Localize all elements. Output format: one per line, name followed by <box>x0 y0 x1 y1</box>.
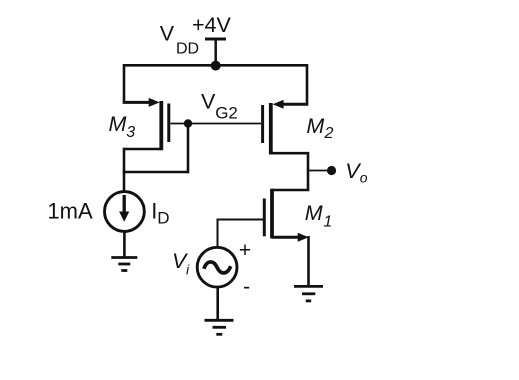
svg-text:1mA: 1mA <box>47 199 93 224</box>
source Vi circle <box>197 247 237 287</box>
wire M1 source to ground <box>307 236 310 286</box>
supply bar +4V <box>205 38 226 41</box>
ground under Vi <box>205 320 234 334</box>
ground under M1 <box>294 286 323 301</box>
svg-text:G2: G2 <box>215 104 238 123</box>
transistor M2 source lead with arrow <box>273 100 309 109</box>
transistor M2 channel bar <box>269 103 273 155</box>
source Vi sine wave <box>204 262 231 273</box>
wire top rail VDD <box>124 64 307 67</box>
label M3 <box>109 112 136 141</box>
svg-text:V: V <box>201 90 216 114</box>
wire Vo stub <box>308 170 328 172</box>
label Vi <box>172 249 190 277</box>
label M1 <box>305 201 333 230</box>
label VG2 <box>201 90 238 123</box>
label VDD <box>160 22 199 58</box>
svg-text:-: - <box>243 275 250 298</box>
wire VG2 gate line to M2 <box>171 123 262 125</box>
svg-text:M: M <box>109 112 127 136</box>
wire loop up to VG2 <box>187 124 190 174</box>
svg-text:M: M <box>305 201 323 225</box>
current source ID circle <box>105 192 145 232</box>
wire M3 drain down <box>123 148 126 172</box>
wire supply stem <box>214 39 217 65</box>
wire to current source <box>123 172 126 193</box>
wire left rail drop to M3 source <box>123 64 126 102</box>
transistor M1 gate bar <box>263 199 266 237</box>
transistor M1 drain lead <box>272 189 309 192</box>
node VG2 junction dot <box>184 119 192 127</box>
transistor M2 drain lead <box>271 152 308 155</box>
wire M2 drain down to Vo node <box>307 152 310 190</box>
wire right rail drop to M2 source <box>306 64 309 104</box>
svg-text:2: 2 <box>324 125 334 142</box>
wire current source to ground <box>123 231 126 258</box>
transistor M1 source lead with arrow <box>272 233 309 242</box>
wire Vi to ground <box>216 287 219 321</box>
svg-text:M: M <box>306 114 324 138</box>
svg-text:V: V <box>160 22 175 46</box>
svg-text:+4V: +4V <box>192 13 232 37</box>
node VDD junction dot <box>211 61 221 71</box>
wire Vi to M1 gate <box>217 219 219 249</box>
svg-text:D: D <box>157 209 169 228</box>
label ID <box>151 198 169 227</box>
transistor M1 gate lead <box>217 219 264 221</box>
transistor M3 drain lead <box>124 148 161 151</box>
ground under current source <box>111 258 137 271</box>
svg-text:DD: DD <box>176 40 199 57</box>
svg-text:o: o <box>360 170 368 186</box>
svg-text:3: 3 <box>126 124 135 141</box>
transistor M2 gate bar <box>261 105 264 143</box>
label Vo <box>345 159 368 186</box>
transistor M3 channel bar <box>159 101 163 150</box>
transistor M3 source lead with arrow <box>123 98 160 107</box>
svg-text:+: + <box>239 239 251 262</box>
node Vo dot <box>327 166 336 175</box>
wire drain-gate loop bottom <box>123 171 188 174</box>
label M2 <box>306 114 333 142</box>
svg-text:1: 1 <box>323 213 332 230</box>
current source arrow <box>119 195 129 222</box>
transistor M3 gate bar <box>167 104 170 143</box>
transistor M1 channel bar <box>270 189 274 239</box>
